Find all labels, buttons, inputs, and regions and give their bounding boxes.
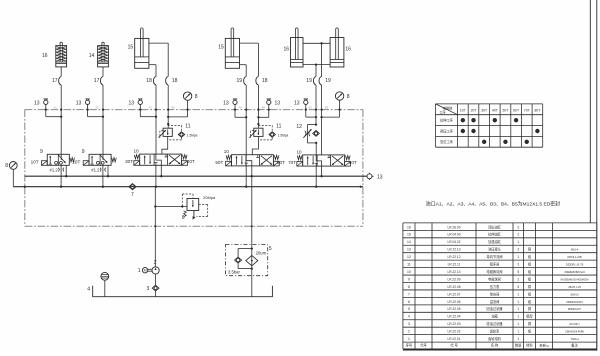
svg-text:40T: 40T — [187, 159, 195, 164]
svg-text:1: 1 — [517, 307, 519, 311]
wire T return line — [25, 175, 367, 177]
svg-text:2: 2 — [154, 260, 157, 266]
svg-text:16: 16 — [283, 47, 289, 53]
manifold boundary right chain line — [362, 110, 364, 227]
svg-text:70T: 70T — [524, 109, 530, 113]
svg-text:电磁铁: 电磁铁 — [443, 105, 453, 110]
svg-text:4: 4 — [408, 315, 410, 319]
svg-text:1: 1 — [408, 337, 410, 341]
svg-text:3: 3 — [147, 286, 150, 292]
svg-text:1.5Mpa: 1.5Mpa — [278, 133, 289, 137]
svg-text:电磁球阀: 电磁球阀 — [488, 276, 501, 281]
svg-text:12: 12 — [296, 124, 302, 130]
test coupling 13 station5 — [304, 100, 308, 104]
svg-text:#1.2: #1.2 — [50, 168, 59, 173]
svg-text:LR.04.02: LR.04.02 — [448, 240, 461, 244]
test coupling 13 T-line — [367, 174, 372, 179]
orifice #1.2 station2 — [99, 168, 102, 172]
svg-text:ZB-63 Y-25: ZB-63 Y-25 — [568, 286, 581, 289]
svg-text:S6A3.0: S6A3.0 — [570, 293, 579, 296]
wire station5 B drop — [321, 43, 323, 76]
svg-text:LR.26.00: LR.26.00 — [448, 225, 461, 229]
svg-text:1: 1 — [517, 337, 519, 341]
filter assembly 5 boundary — [225, 245, 267, 276]
svg-text:铜: 铜 — [528, 247, 531, 252]
wire relief tap line — [155, 206, 187, 208]
svg-text:M16-4: M16-4 — [571, 249, 579, 252]
svg-text:4: 4 — [87, 287, 90, 293]
wire level gauge stem — [104, 280, 106, 297]
svg-text:代号: 代号 — [420, 343, 427, 348]
cylinder 16 station5 right — [330, 38, 344, 68]
wire coupling13 station4 to A line — [234, 104, 236, 117]
svg-text:6: 6 — [182, 215, 185, 221]
svg-text:A5: A5 — [309, 105, 313, 109]
wire station3 rod port B3 — [149, 42, 168, 44]
svg-text:30T: 30T — [481, 109, 487, 113]
svg-text:LR.22.07: LR.22.07 — [448, 292, 461, 296]
svg-text:Y90S-4: Y90S-4 — [570, 338, 579, 341]
sheet frame outer border right — [596, 0, 598, 351]
hose 17 station1 — [59, 77, 62, 86]
svg-text:2: 2 — [517, 263, 519, 267]
spring cylinder 14 — [98, 46, 109, 67]
wire coupling13 station4R to B line — [268, 104, 270, 117]
wire station4 P drop — [245, 166, 247, 187]
svg-text:11: 11 — [185, 124, 190, 130]
svg-text:17: 17 — [94, 78, 100, 84]
svg-text:3: 3 — [408, 322, 410, 326]
svg-text:B4: B4 — [262, 105, 266, 109]
svg-text:11: 11 — [276, 124, 281, 130]
svg-text:3.5bar: 3.5bar — [228, 269, 240, 274]
manifold boundary left chain line — [24, 110, 26, 227]
svg-text:齿轮电机: 齿轮电机 — [488, 336, 502, 341]
test coupling 13 station2 — [85, 100, 89, 104]
svg-text:CBN-E306-FbRh: CBN-E306-FbRh — [565, 331, 585, 334]
svg-text:16: 16 — [345, 47, 351, 53]
test coupling 13 station3 — [138, 100, 142, 104]
hose 19 station4 A — [244, 77, 247, 86]
svg-text:数量: 数量 — [515, 343, 522, 348]
svg-text:名 称: 名 称 — [491, 343, 499, 348]
shaft coupling — [148, 268, 152, 270]
svg-text:19: 19 — [325, 78, 331, 84]
svg-text:1: 1 — [517, 315, 519, 319]
wire station3 piston port A3 — [149, 64, 156, 66]
svg-text:B5: B5 — [325, 105, 329, 109]
wire station5 piston link — [303, 64, 330, 66]
svg-text:预压工序: 预压工序 — [440, 128, 454, 133]
svg-text:60T: 60T — [277, 160, 285, 165]
svg-text:单向节流阀: 单向节流阀 — [487, 254, 503, 259]
test coupling 13 station4 right — [267, 100, 271, 104]
solenoid valve 9 20T — [89, 154, 111, 165]
svg-text:A4: A4 — [239, 105, 243, 109]
svg-text:8: 8 — [347, 94, 350, 100]
test coupling 13 station4 left — [233, 100, 237, 104]
svg-text:13: 13 — [407, 248, 411, 252]
sequence valve 11 station3 — [163, 128, 172, 136]
svg-text:10T: 10T — [460, 109, 466, 113]
svg-text:10T: 10T — [31, 159, 39, 164]
svg-text:M-3SEW6U3X/420MG24: M-3SEW6U3X/420MG24 — [561, 278, 590, 281]
svg-text:50T: 50T — [503, 109, 509, 113]
wire station2 T drop — [107, 165, 109, 176]
svg-text:13: 13 — [223, 100, 229, 106]
wire station4 B line upper — [257, 85, 259, 128]
svg-text:铜: 铜 — [528, 306, 531, 311]
svg-text:2: 2 — [517, 248, 519, 252]
wire station1 cylinder to hose — [60, 67, 62, 77]
svg-text:M: M — [144, 269, 147, 273]
svg-text:LR.22.02: LR.22.02 — [448, 330, 461, 334]
sheet frame inner border right — [589, 0, 591, 223]
svg-text:程序阀: 程序阀 — [490, 262, 500, 267]
hose 19 station5 B — [319, 77, 322, 86]
svg-text:20um: 20um — [256, 250, 267, 255]
svg-text:4WE6E6XB/CG24: 4WE6E6XB/CG24 — [564, 271, 585, 274]
wire station4 rod port B4 — [240, 42, 259, 44]
svg-text:序号: 序号 — [406, 343, 413, 348]
wire pump riser — [154, 187, 156, 267]
svg-text:14: 14 — [89, 53, 95, 59]
wire station1 P drop — [60, 165, 62, 186]
svg-text:1.5Mpa: 1.5Mpa — [187, 133, 198, 137]
wire station1 main line A1 — [60, 85, 62, 160]
wire station5 A line — [315, 85, 317, 125]
pressure gauge 8 station3 — [183, 92, 191, 100]
svg-text:WU-63x I: WU-63x I — [569, 323, 580, 326]
svg-text:50T: 50T — [215, 160, 223, 165]
cylinder 16 station5 left — [291, 38, 304, 68]
solenoid valve 9 10T — [47, 154, 69, 165]
svg-text:1: 1 — [517, 330, 519, 334]
svg-text:单向阀: 单向阀 — [490, 291, 500, 296]
wire gauge 8 stem — [12, 169, 14, 186]
svg-text:溢流阀: 溢流阀 — [490, 299, 500, 304]
svg-text:单重kg: 单重kg — [539, 343, 549, 348]
svg-text:11: 11 — [407, 263, 411, 267]
wire station4 piston port A4 — [240, 64, 247, 66]
svg-text:8: 8 — [195, 94, 198, 100]
svg-text:19: 19 — [306, 78, 312, 84]
svg-text:DBD6G18/315: DBD6G18/315 — [566, 301, 583, 304]
wire station2 P drop — [102, 165, 104, 186]
port P arrow at boundary — [360, 185, 363, 188]
svg-text:复位工序: 复位工序 — [440, 139, 454, 144]
svg-text:A2: A2 — [96, 105, 100, 109]
svg-text:18: 18 — [146, 78, 152, 84]
node P line left junction — [24, 186, 26, 188]
svg-text:9: 9 — [408, 277, 410, 281]
svg-text:加强油缸: 加强油缸 — [488, 239, 502, 244]
solenoid sequence table — [436, 104, 543, 147]
svg-text:16: 16 — [407, 225, 411, 229]
svg-text:5: 5 — [517, 270, 519, 274]
solenoid valve 10 70T-80T — [303, 155, 345, 166]
svg-text:7: 7 — [408, 292, 410, 296]
svg-text:LR.22.08: LR.22.08 — [448, 285, 461, 289]
hose 18 station3 A — [153, 77, 156, 86]
svg-text:拉伸油缸: 拉伸油缸 — [488, 232, 502, 237]
svg-text:材料: 材料 — [526, 343, 533, 348]
wire gauge8 station3 to B line — [187, 100, 189, 117]
svg-text:13: 13 — [128, 100, 134, 106]
svg-text:7: 7 — [131, 192, 134, 198]
svg-text:13: 13 — [275, 100, 281, 106]
svg-text:10: 10 — [224, 149, 230, 154]
svg-text:B3: B3 — [172, 105, 176, 109]
svg-text:测压接头: 测压接头 — [488, 247, 502, 252]
svg-text:LR.22.11: LR.22.11 — [448, 263, 461, 267]
wire station5 B line — [321, 85, 323, 155]
svg-text:电磁换向阀: 电磁换向阀 — [487, 269, 503, 274]
svg-text:10: 10 — [134, 149, 140, 154]
svg-text:15: 15 — [218, 45, 224, 51]
wire station2 cylinder to hose — [102, 67, 104, 77]
bypass check valve 3.5bar — [238, 248, 252, 250]
spring cylinder 16 — [56, 46, 67, 67]
orifice #1.2 station1 — [57, 168, 60, 172]
svg-text:9: 9 — [82, 149, 85, 155]
test coupling 13 station1 — [44, 100, 48, 104]
wire station5 A to valve — [315, 143, 317, 155]
manifold boundary bottom chain line — [25, 225, 363, 227]
svg-text:油箱: 油箱 — [491, 314, 498, 319]
cylinder 15 station3 — [135, 38, 149, 68]
svg-text:13: 13 — [294, 100, 300, 106]
wire station3 A line — [155, 85, 157, 154]
svg-text:18: 18 — [262, 78, 268, 84]
hose 19 station5 A — [313, 77, 316, 86]
svg-text:9: 9 — [40, 149, 43, 155]
manifold boundary top chain line — [25, 109, 363, 111]
svg-text:15: 15 — [407, 233, 411, 237]
svg-text:80T: 80T — [534, 109, 540, 113]
svg-text:5: 5 — [269, 246, 272, 252]
svg-text:RFB40x10Y: RFB40x10Y — [568, 308, 582, 311]
svg-text:2: 2 — [408, 330, 410, 334]
svg-text:A1: A1 — [54, 105, 58, 109]
svg-text:2: 2 — [517, 277, 519, 281]
svg-text:70T: 70T — [288, 160, 296, 165]
svg-text:2: 2 — [517, 233, 519, 237]
wire station2 main line A2 — [102, 85, 104, 160]
svg-text:1: 1 — [517, 255, 519, 259]
check valve 3 — [152, 285, 159, 291]
svg-text:LR.22.13: LR.22.13 — [448, 248, 461, 252]
solenoid valve 10 30T-40T — [140, 154, 182, 165]
svg-text:LR.22.03: LR.22.03 — [448, 322, 461, 326]
svg-text:14: 14 — [407, 240, 411, 244]
hose 17 station2 — [100, 77, 103, 86]
pressure gauge 8 left — [9, 162, 17, 170]
level gauge — [101, 272, 109, 280]
svg-text:1: 1 — [138, 268, 141, 274]
svg-text:LR.22.09: LR.22.09 — [448, 277, 461, 281]
svg-text:20T: 20T — [471, 109, 477, 113]
hose 18 station4 B — [256, 77, 259, 86]
throttle check valve 12 — [307, 124, 316, 126]
cylinder 15 station4 — [225, 38, 239, 68]
hose 18 station3 B — [166, 77, 169, 86]
svg-text:10: 10 — [297, 149, 303, 154]
svg-text:80T: 80T — [349, 160, 357, 165]
svg-text:回油过滤器: 回油过滤器 — [487, 306, 504, 311]
svg-text:1: 1 — [517, 300, 519, 304]
svg-text:DRV6-1-10B: DRV6-1-10B — [568, 256, 582, 259]
wire station4 A line — [245, 85, 247, 155]
svg-text:拉伸工序: 拉伸工序 — [440, 118, 454, 123]
svg-text:18: 18 — [172, 78, 178, 84]
wire station4 B line lower jog — [252, 136, 258, 154]
svg-text:LR.04.00: LR.04.00 — [448, 233, 461, 237]
svg-text:6: 6 — [408, 300, 410, 304]
svg-text:LR.22.05: LR.22.05 — [448, 307, 461, 311]
wire station3 B line upper — [167, 85, 169, 128]
svg-text:16: 16 — [42, 53, 48, 59]
svg-text:1: 1 — [517, 292, 519, 296]
svg-text:20Mpa: 20Mpa — [203, 195, 216, 200]
svg-text:LR.22.06: LR.22.06 — [448, 300, 461, 304]
wire station5 A drop — [315, 65, 317, 77]
wire coupling13 station1 to main — [45, 104, 47, 116]
wire station5 T drop — [321, 166, 323, 176]
svg-text:组焊: 组焊 — [526, 314, 533, 319]
svg-text:13: 13 — [76, 100, 82, 106]
svg-text:吸油过滤器: 吸油过滤器 — [487, 321, 504, 326]
svg-text:铜: 铜 — [528, 321, 531, 326]
svg-text:油口A1、A2、A3、A4、A5、B3、B4、B5为M12X: 油口A1、A2、A3、A4、A5、B3、B4、B5为M12X1.5 ED密封 — [426, 201, 560, 208]
wire P pressure line — [13, 186, 363, 188]
bill of materials table — [403, 223, 597, 349]
pressure gauge 8 station5 — [335, 92, 343, 100]
pump 2 — [152, 267, 159, 274]
svg-text:30T: 30T — [125, 159, 133, 164]
svg-text:60T: 60T — [513, 109, 519, 113]
wire return drop to tank — [251, 176, 253, 297]
svg-text:压力表: 压力表 — [490, 284, 500, 289]
svg-text:2: 2 — [517, 225, 519, 229]
wire station4 T drop — [251, 166, 253, 176]
wire station5 rod link — [303, 42, 330, 44]
svg-text:备注: 备注 — [571, 343, 578, 348]
wire gauge8 station5 to B line — [339, 100, 341, 117]
wire pump to check3 — [155, 274, 157, 285]
motor 1 — [142, 268, 147, 273]
svg-text:8: 8 — [408, 285, 410, 289]
svg-text:5: 5 — [408, 307, 410, 311]
wire check3 to tank — [155, 291, 157, 297]
wire station1 T drop — [65, 165, 67, 176]
svg-text:5: 5 — [517, 285, 519, 289]
bill of materials heavy bottom line — [403, 349, 597, 351]
svg-text:LR.22.04: LR.22.04 — [448, 315, 461, 319]
check valve 7 — [129, 184, 136, 190]
svg-text:20T: 20T — [72, 159, 80, 164]
svg-text:15: 15 — [128, 45, 134, 51]
svg-text:顶出油缸: 顶出油缸 — [488, 224, 502, 229]
svg-text:A3: A3 — [149, 105, 153, 109]
svg-text:10: 10 — [407, 270, 411, 274]
wire station3 P drop — [155, 165, 157, 186]
solenoid valve 10 50T-60T — [232, 155, 274, 166]
wire station3 B line lower jog — [162, 136, 168, 154]
wire coupling13 station3 to A line — [139, 104, 141, 116]
wire station3 T drop — [160, 165, 162, 176]
svg-text:DZ5DP1-10 /75: DZ5DP1-10 /75 — [566, 264, 584, 267]
svg-text:40T: 40T — [492, 109, 498, 113]
svg-text:工序: 工序 — [439, 110, 446, 115]
tank 4 — [93, 286, 273, 297]
filter element 20um — [246, 255, 258, 265]
svg-text:1: 1 — [517, 240, 519, 244]
svg-text:齿轮泵: 齿轮泵 — [490, 329, 500, 334]
svg-text:LR.22.12: LR.22.12 — [448, 255, 461, 259]
svg-text:17: 17 — [52, 78, 58, 84]
svg-text:代 号: 代 号 — [450, 343, 458, 348]
svg-text:LR.22.10: LR.22.10 — [448, 270, 461, 274]
svg-text:13: 13 — [377, 174, 383, 180]
sequence valve 11 station4 — [254, 128, 263, 136]
relief valve 6 — [187, 199, 199, 211]
svg-text:1: 1 — [517, 322, 519, 326]
svg-text:8: 8 — [5, 163, 8, 169]
wire station5 P drop — [315, 166, 317, 187]
wire coupling13 station2 to main — [87, 104, 89, 116]
svg-text:#1.2: #1.2 — [91, 168, 100, 173]
svg-text:铜: 铜 — [528, 284, 531, 289]
svg-text:LR.22.01: LR.22.01 — [448, 337, 461, 341]
wire coupling13 station5 to A line — [305, 104, 307, 117]
svg-text:13: 13 — [34, 100, 40, 106]
svg-text:19: 19 — [237, 78, 243, 84]
svg-text:12: 12 — [407, 255, 411, 259]
